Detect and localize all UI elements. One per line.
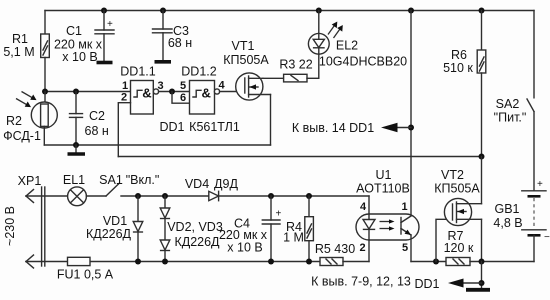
node R1/R2/rail [42, 89, 48, 95]
node between gates [169, 89, 175, 95]
node rail A / ground [73, 142, 79, 148]
node R4 top [306, 193, 312, 199]
svg-text:4: 4 [218, 80, 225, 92]
diode VD3 [160, 240, 170, 262]
svg-text:4: 4 [360, 201, 367, 213]
resistor R3 [284, 74, 319, 82]
node EL2 top [316, 8, 322, 14]
capacitor C3 [153, 11, 173, 61]
wire VT1 source down to rail A [270, 95, 272, 146]
node top rail / U1 pin1 riser [408, 8, 414, 14]
svg-text:DD1: DD1 [159, 120, 184, 134]
svg-text:КП505А: КП505А [223, 53, 269, 67]
svg-text:10G4DHCBB20: 10G4DHCBB20 [319, 55, 407, 69]
wire drop to U1 pin 4 [368, 196, 370, 214]
switch SA1 [106, 184, 119, 197]
wire pin5 rail to R7 [411, 261, 446, 263]
svg-text:5: 5 [402, 242, 408, 254]
svg-text:~230 В: ~230 В [3, 206, 17, 246]
wire VT1 drain to R3 [263, 77, 284, 79]
light arrows out of EL2 [328, 24, 341, 38]
logic gate DD1.1 [131, 81, 154, 115]
svg-text:C1: C1 [66, 24, 82, 38]
wire U1 pin 5 down [410, 235, 412, 262]
wire DD1.2 out to VT1 gate [220, 91, 245, 93]
svg-text:1 М: 1 М [283, 231, 304, 245]
svg-text:68 н: 68 н [168, 36, 192, 50]
svg-text:5,1 М: 5,1 М [3, 45, 34, 59]
svg-text:FU1 0,5 А: FU1 0,5 А [57, 268, 114, 282]
pin 3 bubble of DD1.1 [153, 89, 158, 94]
wire mid rail [45, 91, 131, 93]
wire pin 2 of DD1.1 [118, 103, 130, 157]
svg-text:К выв. 7-9, 12, 13: К выв. 7-9, 12, 13 [311, 275, 411, 289]
node VD2 top [162, 193, 168, 199]
wire arrow line bottom [462, 282, 482, 284]
svg-text:DD1.2: DD1.2 [181, 65, 216, 79]
svg-text:R2: R2 [6, 114, 22, 128]
svg-text:VD2, VD3: VD2, VD3 [167, 220, 223, 234]
ground (C1) [97, 61, 113, 65]
logic gate DD1.2 [190, 81, 215, 115]
svg-text:VD1: VD1 [103, 214, 127, 228]
svg-text:120 к: 120 к [444, 241, 474, 255]
svg-text:+: + [276, 209, 282, 220]
ground (bottom right) [466, 288, 490, 292]
capacitor C2 [70, 92, 83, 146]
svg-text:XP1: XP1 [18, 174, 42, 188]
svg-text:VT1: VT1 [232, 39, 255, 53]
svg-text:"Вкл.": "Вкл." [126, 173, 160, 187]
ground (rail A) [75, 145, 77, 153]
svg-text:"Пит.": "Пит." [494, 111, 527, 125]
node R7 right / source / ground [479, 259, 485, 265]
svg-text:SA1: SA1 [99, 173, 123, 187]
wire rail A (signal ground rail) [44, 144, 270, 146]
node rail B / R6 / VT2 drain [479, 154, 485, 160]
svg-text:&: & [202, 86, 211, 101]
diode VD2 [160, 196, 170, 240]
svg-text:К561ТЛ1: К561ТЛ1 [189, 120, 240, 134]
svg-text:R1: R1 [12, 32, 28, 46]
svg-text:C2: C2 [89, 109, 105, 123]
wire top rail [45, 10, 534, 12]
svg-text:VT2: VT2 [441, 168, 464, 182]
svg-text:−: − [544, 232, 550, 243]
wire AC bottom rail [26, 261, 320, 263]
capacitor C4 [262, 196, 281, 262]
svg-text:КД226Д: КД226Д [174, 235, 220, 249]
wire riser to U1 pin 1 [410, 11, 412, 217]
wire down to ground [481, 262, 483, 288]
node R4 bottom [306, 259, 312, 265]
node C2 top [73, 89, 79, 95]
fuse FU1 [68, 257, 91, 265]
wire VT2 drain up to node [481, 157, 483, 204]
lamp EL1 [68, 187, 87, 206]
photoresistor R2 [31, 92, 57, 146]
svg-text:GB1: GB1 [494, 202, 519, 216]
svg-text:EL1: EL1 [63, 173, 85, 187]
node top rail / R6 [479, 8, 485, 14]
svg-text:КП505А: КП505А [434, 182, 480, 196]
node VD3 bottom [162, 259, 168, 265]
svg-text:2: 2 [121, 92, 127, 104]
svg-text:5: 5 [180, 80, 186, 92]
switch SA2 [527, 99, 534, 112]
svg-text:R6: R6 [451, 48, 467, 62]
wire arrow line [396, 127, 411, 129]
resistor R5 [320, 258, 369, 266]
wire EL1 to SA1 [86, 195, 106, 197]
svg-text:VD4: VD4 [185, 177, 209, 191]
capacitor C1 [95, 11, 114, 62]
svg-text:510 к: 510 к [443, 61, 473, 75]
pin 4 bubble of DD1.2 [214, 89, 219, 94]
svg-text:SA2: SA2 [496, 97, 520, 111]
svg-text:68 н: 68 н [85, 124, 109, 138]
svg-text:ФСД-1: ФСД-1 [3, 129, 41, 143]
svg-text:2: 2 [359, 242, 365, 254]
wire rail B (pin2 - R6 bottom) [118, 156, 481, 158]
svg-text:х 10 В: х 10 В [62, 50, 97, 64]
LED EL2 [308, 11, 329, 79]
wire U1 pin 2 down [368, 240, 370, 262]
optocoupler U1 [356, 214, 419, 240]
diode VD4 [209, 191, 219, 200]
svg-text:КД226Д: КД226Д [86, 227, 132, 241]
svg-text:АОТ110В: АОТ110В [356, 182, 410, 196]
svg-text:1: 1 [122, 80, 128, 92]
diode VD1 [133, 196, 143, 262]
node junction top rail / C1 [101, 8, 107, 14]
wire VT2 source down [481, 219, 483, 261]
svg-text:6: 6 [180, 92, 186, 104]
svg-text:&: & [142, 86, 151, 101]
wire AC top: plug to EL1 [26, 195, 68, 197]
node VD1 bottom [135, 259, 141, 265]
resistor R4 [305, 196, 314, 262]
svg-text:R5 430: R5 430 [315, 242, 355, 256]
svg-text:U1: U1 [376, 168, 392, 182]
svg-text:+: + [537, 179, 543, 190]
node arrow to pin 14 [408, 125, 414, 131]
svg-text:4,8 В: 4,8 В [493, 216, 522, 230]
svg-text:+: + [107, 19, 113, 30]
svg-text:К выв. 14 DD1: К выв. 14 DD1 [292, 121, 374, 135]
svg-text:DD1.1: DD1.1 [120, 65, 155, 79]
node gate/R7 left [433, 259, 439, 265]
wire right edge down to SA2 [533, 11, 535, 98]
transistor VT1 [236, 73, 271, 100]
svg-text:х 10 В: х 10 В [227, 241, 262, 255]
ground (C3) [155, 60, 172, 64]
wire VT2 gate down [436, 219, 453, 261]
photo arrows into R2 [16, 92, 34, 106]
resistor R7 [446, 258, 534, 266]
svg-text:DD1: DD1 [414, 277, 439, 291]
wire SA1 to pin4 drop [121, 195, 369, 197]
resistor R6 [477, 11, 486, 157]
svg-text:R3 22: R3 22 [279, 58, 312, 72]
svg-text:EL2: EL2 [336, 39, 358, 53]
node arrow join [479, 280, 485, 286]
node C4 top [268, 193, 274, 199]
node C4 bottom [268, 259, 274, 265]
node VD1 top [135, 193, 141, 199]
battery GB1 [522, 179, 550, 262]
wire to pin 6 [172, 92, 190, 104]
plug XP1 [26, 187, 45, 268]
svg-text:Д9Д: Д9Д [214, 177, 238, 191]
node junction top rail / C3 [160, 8, 166, 14]
svg-text:3: 3 [157, 80, 163, 92]
resistor R1 [41, 11, 50, 92]
transistor VT2 [444, 198, 481, 225]
wire DD1.1 out to DD1.2 in [159, 91, 190, 93]
svg-text:1: 1 [401, 201, 407, 213]
